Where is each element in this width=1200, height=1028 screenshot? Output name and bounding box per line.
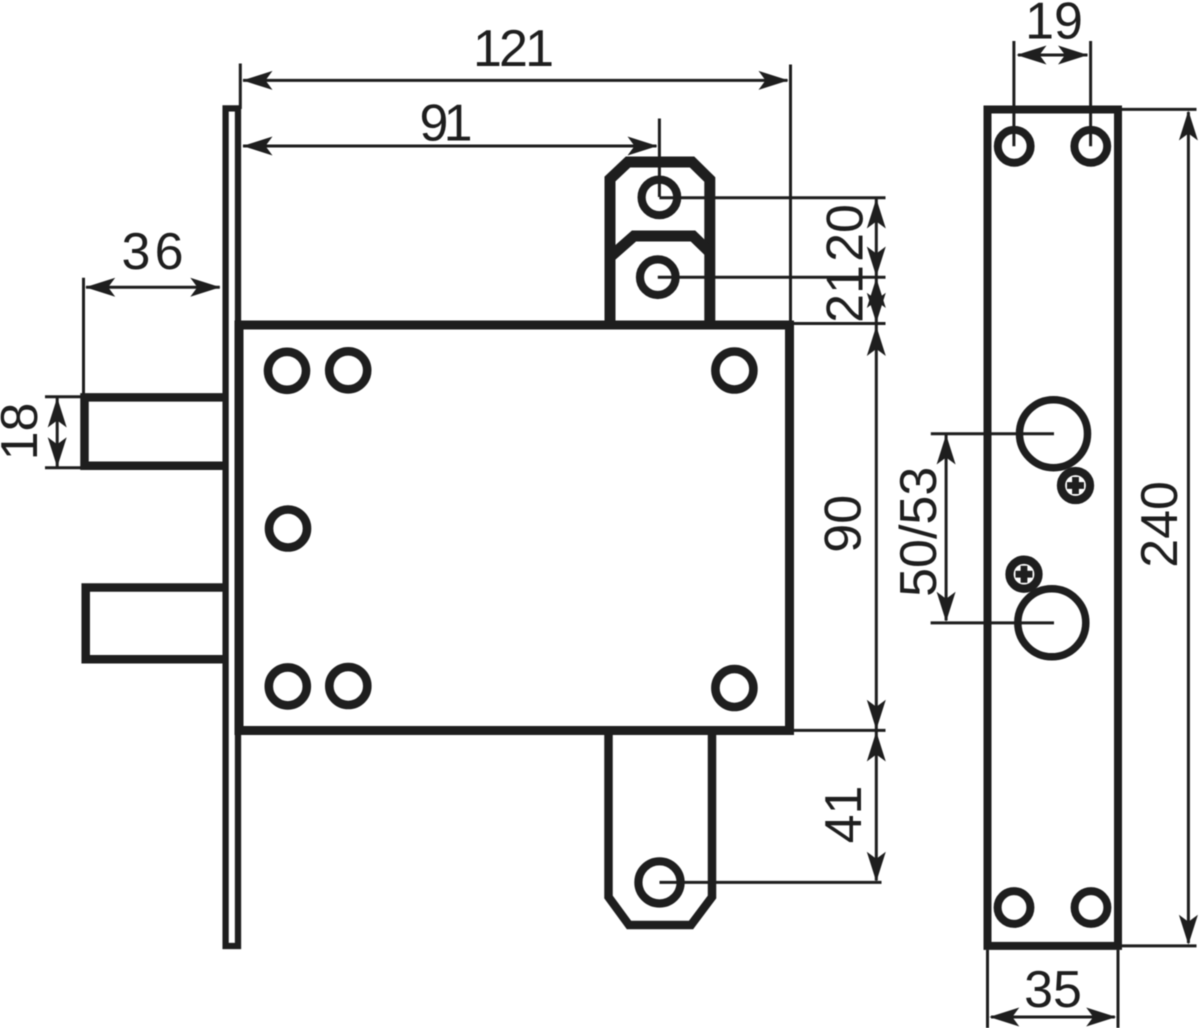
svg-text:21: 21 <box>817 265 875 323</box>
svg-text:18: 18 <box>0 403 49 461</box>
svg-text:50/53: 50/53 <box>890 467 948 597</box>
svg-text:121: 121 <box>473 20 554 78</box>
svg-text:20: 20 <box>817 204 875 262</box>
svg-text:90: 90 <box>815 495 873 553</box>
svg-text:35: 35 <box>1024 961 1082 1019</box>
svg-text:41: 41 <box>815 786 873 844</box>
svg-text:19: 19 <box>1025 0 1083 51</box>
svg-text:91: 91 <box>420 95 473 153</box>
svg-text:240: 240 <box>1131 481 1189 568</box>
